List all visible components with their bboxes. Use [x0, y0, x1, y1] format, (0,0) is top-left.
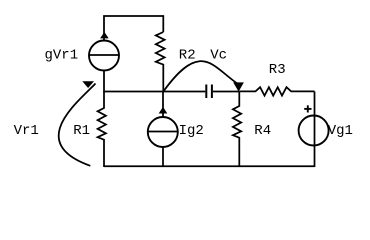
svg-text:R3: R3: [269, 62, 286, 78]
wire middle rail right of capacitor: [213, 91, 239, 93]
resistor R4: [233, 92, 241, 168]
current source Ig2: [148, 92, 178, 168]
voltage arrow Vc head: [233, 82, 244, 91]
resistor R1: [98, 91, 106, 167]
svg-text:Vr1: Vr1: [14, 123, 39, 139]
svg-text:Ig2: Ig2: [179, 123, 204, 139]
capacitor C: [206, 85, 212, 99]
resistor R3: [239, 87, 314, 95]
wire top loop from gVr1 to R2: [104, 16, 163, 41]
voltage arrow Vc arc: [164, 61, 239, 91]
wire gVr1 bottom to middle rail: [103, 71, 105, 93]
svg-text:R1: R1: [73, 123, 90, 139]
wire bottom rail: [104, 165, 315, 167]
wire middle rail left of capacitor: [104, 91, 205, 93]
svg-text:Vg1: Vg1: [328, 123, 353, 139]
svg-text:Vc: Vc: [210, 47, 227, 63]
svg-text:R4: R4: [254, 123, 271, 139]
voltage arrow Vr1 head: [82, 81, 94, 88]
voltage source Vg1: [299, 91, 329, 167]
svg-text:gVr1: gVr1: [45, 48, 79, 64]
polarity mark + of Vg1: [304, 105, 311, 112]
svg-text:R2: R2: [179, 47, 196, 63]
resistor R2: [156, 32, 165, 92]
voltage arrow Vr1 arc: [59, 84, 96, 166]
current source gVr1: [89, 32, 119, 71]
